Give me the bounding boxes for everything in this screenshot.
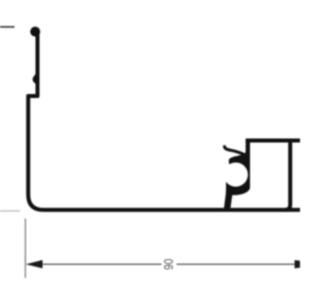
svg-text:90: 90 <box>162 258 177 270</box>
profile main outline <box>28 30 300 210</box>
retention hook fin <box>225 147 247 156</box>
right box inner wall with bottom fillet <box>286 141 291 210</box>
dimension arrow right (clipped at edge) <box>295 260 320 268</box>
profile notch <box>33 73 37 86</box>
right box top flange and left wall <box>248 141 300 158</box>
screw channel body <box>224 139 250 209</box>
cut-off dimension line bottom-left <box>0 210 20 212</box>
dimension line left segment <box>40 263 162 265</box>
cut-off dimension line top-left <box>0 26 15 28</box>
profile top bulb <box>30 27 40 37</box>
dimension line right segment <box>177 263 296 265</box>
dimension extension line left <box>24 219 26 279</box>
dimension arrow left <box>26 260 43 268</box>
